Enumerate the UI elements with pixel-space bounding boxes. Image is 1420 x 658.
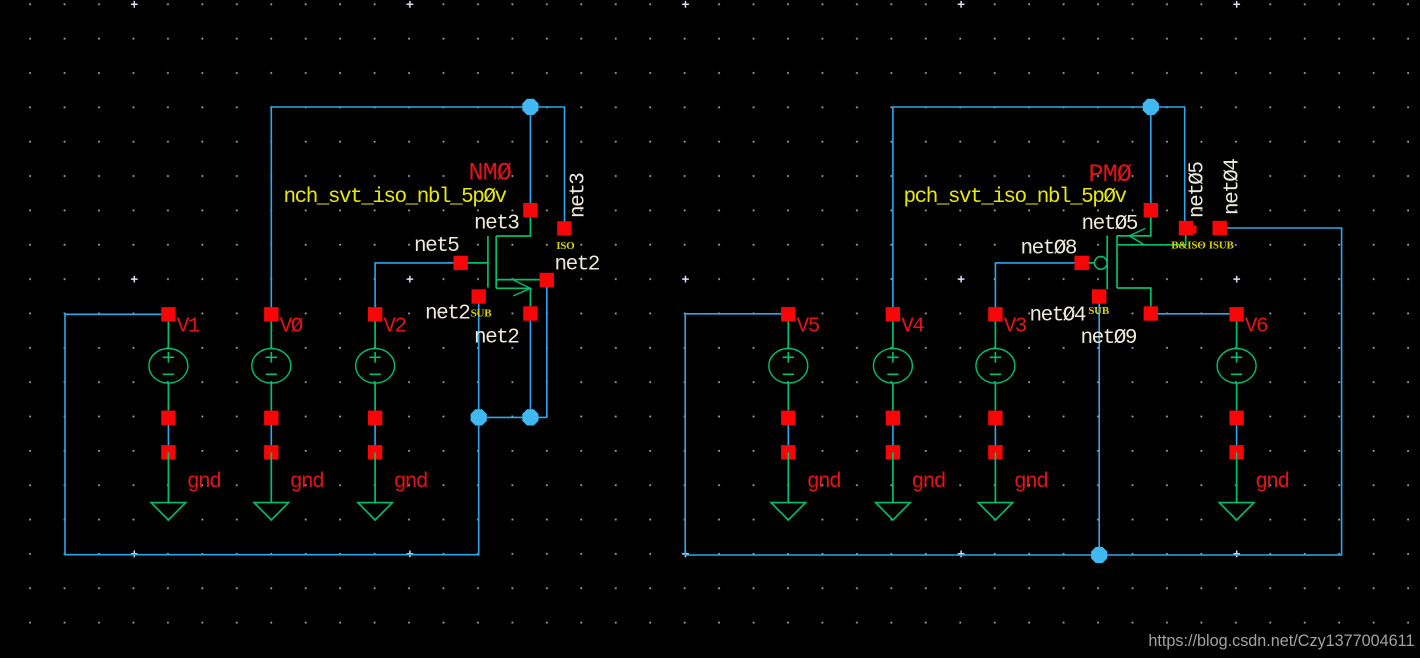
- svg-text:net5: net5: [414, 235, 459, 258]
- pin NM0 bulk (net2): [540, 273, 554, 287]
- svg-text:VØ: VØ: [280, 316, 303, 339]
- ground symbol under V1: [151, 452, 186, 520]
- svg-text:ISO: ISO: [556, 240, 575, 252]
- svg-text:V1: V1: [177, 316, 200, 339]
- svg-text:SUB: SUB: [471, 307, 493, 319]
- junction net2 left: [471, 409, 487, 425]
- svg-text:V5: V5: [797, 316, 820, 339]
- wire net2 bus between junctions: [479, 416, 547, 418]
- svg-text:netØ9: netØ9: [1081, 327, 1137, 350]
- pin NM0 gate (net5): [454, 256, 468, 270]
- pin V2 plus terminal: [368, 307, 382, 321]
- ground symbol under V2: [358, 452, 393, 520]
- pin V6 minus terminal: [1229, 411, 1243, 425]
- svg-text:NMØ: NMØ: [469, 159, 512, 188]
- ground symbol under V6: [1219, 452, 1254, 520]
- pin V1 plus terminal: [161, 307, 175, 321]
- pin NM0 SUB (net2): [472, 289, 486, 303]
- voltage source V3: [976, 321, 1015, 411]
- wire net05 top rail (V4 riser, rail, B&ISO riser, source riser): [893, 107, 1185, 314]
- pin VØ minus terminal: [264, 411, 278, 425]
- svg-text:gnd: gnd: [394, 471, 427, 494]
- pin gnd of VØ: [264, 445, 278, 459]
- wire V4 minus to gnd pin: [892, 418, 894, 453]
- pin gnd of V3: [988, 445, 1002, 459]
- junction net2 right: [522, 409, 538, 425]
- pin gnd of V4: [886, 445, 900, 459]
- svg-text:nch_svt_iso_nbl_5pØv: nch_svt_iso_nbl_5pØv: [284, 186, 507, 209]
- wire V6 minus to gnd pin: [1236, 418, 1238, 453]
- svg-text:V2: V2: [383, 316, 406, 339]
- svg-text:B&ISO: B&ISO: [1171, 239, 1206, 251]
- wire V1 minus to gnd pin: [167, 418, 169, 453]
- pin V4 minus terminal: [886, 411, 900, 425]
- svg-text:V3: V3: [1004, 316, 1027, 339]
- ground symbol under V4: [876, 452, 911, 520]
- wire PM0 SUB drop: [1098, 297, 1100, 556]
- wire V3 minus to gnd pin: [994, 418, 996, 453]
- svg-text:gnd: gnd: [290, 471, 323, 494]
- ground symbol under V3: [978, 452, 1013, 520]
- pin PM0 SUB (net04): [1092, 289, 1106, 303]
- junction net05 rail: [1143, 99, 1159, 115]
- pin V6 plus terminal: [1229, 307, 1243, 321]
- pin PM0 gate (net08): [1075, 256, 1089, 270]
- svg-text:pch_svt_iso_nbl_5pØv: pch_svt_iso_nbl_5pØv: [904, 186, 1127, 209]
- pin NM0 drain (net3): [523, 203, 537, 217]
- transistor NM0 (nch_svt_iso_nbl_5p0v) symbol: [461, 210, 541, 313]
- pin NM0 source (net2): [523, 306, 537, 320]
- voltage source V2: [356, 321, 395, 411]
- voltage source V1: [149, 321, 188, 411]
- wire gnd loop right: V5 rail, bottom rail, right riser, ISUB feed: [685, 228, 1341, 555]
- svg-text:netØ4: netØ4: [1222, 159, 1245, 215]
- svg-text:netØ5: netØ5: [1082, 213, 1138, 236]
- pin gnd of V1: [161, 445, 175, 459]
- wire V2 minus to gnd pin: [374, 418, 376, 453]
- svg-text:V4: V4: [901, 316, 924, 339]
- pin gnd of V5: [781, 445, 795, 459]
- transistor PM0 (pch_svt_iso_nbl_5p0v) symbol: [1082, 216, 1186, 314]
- ground symbol under V5: [771, 452, 806, 520]
- pin VØ plus terminal: [264, 307, 278, 321]
- pin V4 plus terminal: [886, 307, 900, 321]
- svg-text:net2: net2: [555, 254, 600, 277]
- svg-text:net2: net2: [474, 327, 519, 350]
- pin V5 minus terminal: [781, 411, 795, 425]
- wire NM0 bulk drop: [546, 280, 548, 417]
- voltage source V4: [873, 321, 912, 411]
- pin PM0 drain (net09): [1144, 306, 1158, 320]
- wire net3 top rail (V0 riser, rail, ISO riser, drain riser): [271, 107, 564, 313]
- wire NM0 source drop: [529, 314, 531, 418]
- wire net08: V3 to PM0 gate: [995, 263, 1081, 314]
- svg-text:ISUB: ISUB: [1209, 239, 1235, 251]
- svg-text:netØ4: netØ4: [1030, 305, 1086, 328]
- svg-text:gnd: gnd: [1255, 471, 1288, 494]
- pin PM0 source (net05): [1144, 203, 1158, 217]
- svg-text:gnd: gnd: [912, 471, 945, 494]
- pin V5 plus terminal: [781, 307, 795, 321]
- voltage source V5: [769, 321, 808, 411]
- svg-text:net3: net3: [474, 213, 519, 236]
- wire gnd loop: V1 left rail, bottom rail, riser to net2 junction: [65, 314, 479, 554]
- wire net09: PM0 drain to V6: [1151, 313, 1237, 315]
- junction net3 rail: [522, 99, 538, 115]
- pin V3 minus terminal: [988, 411, 1002, 425]
- wire V5 minus to gnd pin: [787, 418, 789, 453]
- pin gnd of V2: [368, 445, 382, 459]
- pin PM0 B&ISO (net05): [1179, 221, 1197, 235]
- svg-text:SUB: SUB: [1088, 305, 1110, 317]
- wire NM0 SUB drop: [478, 297, 480, 418]
- svg-text:gnd: gnd: [1014, 471, 1047, 494]
- pin V3 plus terminal: [988, 307, 1002, 321]
- wire VØ minus to gnd pin: [270, 418, 272, 453]
- voltage source V6: [1217, 321, 1256, 411]
- pin PM0 ISUB (net04): [1213, 221, 1227, 235]
- pin V2 minus terminal: [368, 411, 382, 425]
- svg-text:netØ8: netØ8: [1021, 238, 1077, 261]
- voltage source VØ: [252, 321, 291, 411]
- svg-text:gnd: gnd: [807, 471, 840, 494]
- svg-text:https://blog.csdn.net/Czy13770: https://blog.csdn.net/Czy1377004611: [1148, 632, 1414, 650]
- svg-text:net2: net2: [425, 303, 470, 326]
- svg-text:PMØ: PMØ: [1089, 160, 1132, 189]
- svg-text:gnd: gnd: [187, 471, 220, 494]
- svg-text:netØ5: netØ5: [1187, 162, 1210, 218]
- pin NM0 ISO (net3): [557, 221, 571, 235]
- wire net5: V2 to NM0 gate: [375, 263, 461, 314]
- svg-text:net3: net3: [568, 173, 591, 218]
- svg-text:V6: V6: [1245, 316, 1268, 339]
- junction gnd bottom rail: [1091, 547, 1107, 563]
- pin V1 minus terminal: [161, 411, 175, 425]
- ground symbol under VØ: [254, 452, 289, 520]
- pin gnd of V6: [1229, 445, 1243, 459]
